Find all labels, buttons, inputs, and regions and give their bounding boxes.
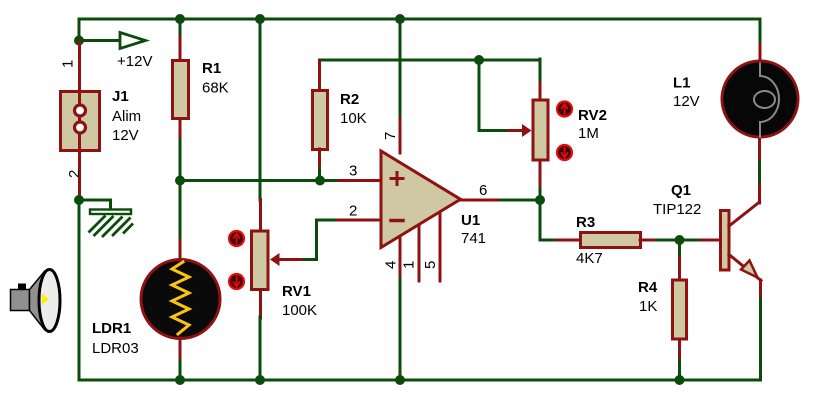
svg-text:J1: J1	[112, 88, 129, 105]
wire J1 pin1 (red)	[78, 42, 81, 90]
wire RV1 top pin (red)	[259, 200, 262, 231]
svg-text:1: 1	[401, 261, 418, 269]
potentiometer RV1	[252, 231, 269, 290]
wire RV1 to bottom rail (green)	[259, 317, 262, 380]
wire R2 to pin3 (green)	[318, 169, 321, 181]
wire pin3 (green)	[180, 179, 340, 182]
junction dot top rail RV1	[255, 14, 265, 24]
ground symbol	[90, 210, 133, 237]
junction dot base node	[675, 235, 685, 245]
junction dot R2/pin3	[315, 176, 325, 186]
junction dot output node	[535, 195, 545, 205]
wire RV1 wiper shaft (red)	[278, 258, 301, 261]
wire pin3 stub (red)	[339, 179, 381, 182]
svg-text:6: 6	[479, 182, 487, 199]
torch actuator icon	[11, 270, 61, 332]
svg-text:3: 3	[349, 163, 357, 180]
wire R1 to node (green)	[179, 140, 182, 242]
wire R1 top pin (red)	[179, 38, 182, 60]
junction dot top rail R1	[175, 14, 185, 24]
wire emitter column (green)	[759, 299, 762, 380]
wire R4 top pin (red)	[678, 258, 681, 279]
svg-text:10K: 10K	[340, 110, 367, 127]
svg-text:LDR03: LDR03	[92, 340, 139, 357]
knob RV1 down	[229, 274, 244, 289]
photoresistor LDR1	[141, 260, 220, 339]
svg-text:R3: R3	[576, 214, 595, 231]
power symbol +12V arrow	[120, 33, 146, 49]
svg-text:RV1: RV1	[282, 283, 311, 300]
wire RV1 column (green)	[259, 19, 262, 200]
wire pin2 stub (red)	[334, 219, 381, 222]
svg-text:5: 5	[422, 261, 439, 269]
svg-text:RV2: RV2	[578, 107, 607, 124]
junction dot bottom rail pin4	[395, 375, 405, 385]
svg-text:U1: U1	[461, 212, 480, 229]
wire left column upper (green)	[78, 19, 81, 42]
junction dot wiper branch	[474, 55, 484, 65]
knob RV1 up	[229, 231, 244, 246]
svg-text:TIP122: TIP122	[653, 201, 701, 218]
wire ground stub	[79, 200, 111, 208]
wire RV2 top pin (red)	[539, 83, 542, 99]
wire lamp top pin (red)	[759, 40, 762, 61]
svg-text:1: 1	[60, 60, 77, 68]
wire pin7 column (green)	[399, 19, 402, 120]
svg-text:2: 2	[349, 203, 357, 220]
op-amp U1	[381, 151, 461, 248]
wire Q1 base pin (red)	[700, 239, 719, 242]
wire LDR top pin (red)	[179, 241, 182, 261]
wire R3 to base node (green)	[657, 239, 680, 242]
wire pin1 stub (red)	[418, 226, 421, 281]
wire +12V branch	[80, 39, 119, 42]
wire R4 bottom pin (red)	[678, 339, 681, 361]
wire RV1 bottom pin (red)	[259, 290, 262, 318]
wire R1 bottom pin (red)	[179, 119, 182, 140]
resistor R2	[313, 91, 328, 150]
wire pin4 to bottom rail (green)	[399, 279, 402, 380]
wire R3 right pin (red)	[640, 239, 658, 242]
svg-text:7: 7	[382, 132, 399, 140]
wire pin6 output (red)	[459, 199, 502, 202]
wire R2 top branch (green)	[320, 60, 541, 62]
svg-text:Q1: Q1	[671, 182, 691, 199]
wire R2 top pin (red)	[318, 61, 321, 90]
svg-text:+12V: +12V	[117, 53, 152, 70]
wire left column lower (green)	[78, 198, 81, 380]
svg-text:741: 741	[461, 230, 486, 247]
wire RV2 wiper branch (green)	[479, 60, 509, 131]
svg-text:4K7: 4K7	[576, 250, 603, 267]
knob RV2 up	[557, 102, 572, 117]
svg-text:Alim: Alim	[112, 108, 141, 125]
wire J1 pin2 (red)	[78, 151, 81, 198]
wire bottom rail	[79, 379, 761, 382]
wire collector to lamp (green)	[758, 158, 761, 182]
wire LDR to bottom rail (green)	[179, 361, 182, 380]
arrowhead RV1 wiper	[270, 253, 280, 266]
wire pin4 stub (red)	[399, 237, 402, 280]
resistor R1	[173, 61, 189, 119]
transistor Q1	[721, 202, 762, 281]
wire RV2 to output node (green)	[539, 189, 542, 200]
arrowhead RV2 wiper	[522, 124, 532, 137]
knob RV2 down	[557, 145, 572, 160]
junction dot bottom rail LDR	[175, 375, 185, 385]
svg-text:R2: R2	[340, 91, 359, 108]
svg-text:12V: 12V	[112, 127, 139, 144]
svg-text:100K: 100K	[282, 302, 317, 319]
junction dot left/+12V	[74, 36, 84, 46]
svg-text:1M: 1M	[578, 125, 599, 142]
svg-text:1K: 1K	[639, 298, 657, 315]
svg-text:68K: 68K	[202, 80, 229, 97]
wire R1 top stub (green)	[179, 19, 182, 38]
junction dot bottom rail R4	[675, 375, 685, 385]
junction dot top rail pin7	[395, 14, 405, 24]
wire pin5 stub (red)	[439, 213, 442, 281]
svg-text:R4: R4	[638, 279, 658, 296]
wire Q1 collector pin (red)	[758, 181, 761, 203]
wire lamp to top rail (green)	[759, 19, 762, 41]
lamp L1	[722, 61, 798, 137]
wire RV2 wiper shaft (red)	[508, 129, 523, 132]
wire top rail	[79, 18, 760, 21]
potentiometer RV2	[533, 100, 548, 160]
resistor R4	[673, 280, 687, 339]
wire R4 to bottom rail (green)	[678, 360, 681, 380]
wire lamp bottom pin (red)	[758, 138, 761, 159]
svg-text:12V: 12V	[673, 93, 700, 110]
wire output to RV2 node (green)	[501, 199, 540, 202]
wire LDR bottom pin (red)	[179, 338, 182, 362]
wire pin7 stub (red)	[399, 119, 402, 153]
svg-text:LDR1: LDR1	[92, 320, 131, 337]
junction dot pin3 node	[175, 176, 185, 186]
junction dot ground branch	[74, 195, 84, 205]
wire R2 bottom pin (red)	[318, 149, 321, 170]
svg-text:R1: R1	[202, 60, 221, 77]
wire output node to R3 (green)	[540, 200, 557, 240]
resistor R3	[581, 233, 641, 248]
connector J1	[61, 91, 100, 151]
wire R3 left pin (red)	[556, 239, 580, 242]
wire pin2 to wiper (green)	[299, 220, 335, 260]
svg-text:4: 4	[383, 261, 400, 269]
wire R4 top stub (green)	[678, 240, 681, 259]
wire base node to Q1 (green)	[679, 239, 701, 242]
svg-text:L1: L1	[673, 75, 691, 92]
wire RV2 bottom pin (red)	[539, 160, 542, 190]
junction dot bottom rail RV1	[255, 375, 265, 385]
wire Q1 emitter to bottom rail	[759, 280, 762, 300]
svg-text:2: 2	[66, 170, 83, 178]
wire RV2 top (green)	[539, 59, 542, 84]
